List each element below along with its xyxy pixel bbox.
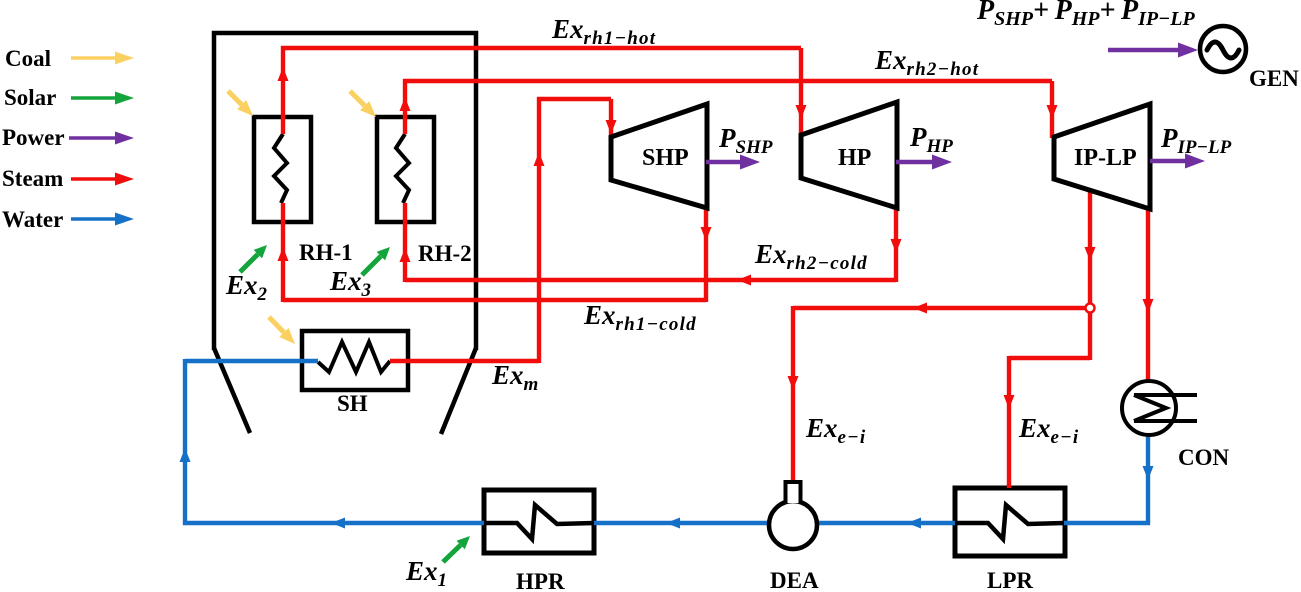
svg-text:RH-1: RH-1 [299, 240, 353, 265]
svg-text:SHP: SHP [642, 145, 689, 171]
svg-text:SH: SH [337, 391, 368, 416]
svg-text:CON: CON [1178, 445, 1230, 470]
svg-text:LPR: LPR [987, 568, 1033, 592]
svg-text:Power: Power [2, 125, 65, 150]
svg-text:IP-LP: IP-LP [1074, 145, 1137, 171]
svg-text:HPR: HPR [516, 569, 565, 592]
svg-text:RH-2: RH-2 [418, 241, 472, 266]
svg-text:Steam: Steam [2, 166, 63, 191]
svg-text:HP: HP [838, 145, 871, 171]
svg-text:GEN: GEN [1249, 66, 1299, 91]
svg-text:Solar: Solar [4, 85, 56, 110]
svg-text:Water: Water [2, 207, 63, 232]
svg-text:Coal: Coal [5, 46, 51, 71]
svg-text:DEA: DEA [770, 568, 819, 592]
